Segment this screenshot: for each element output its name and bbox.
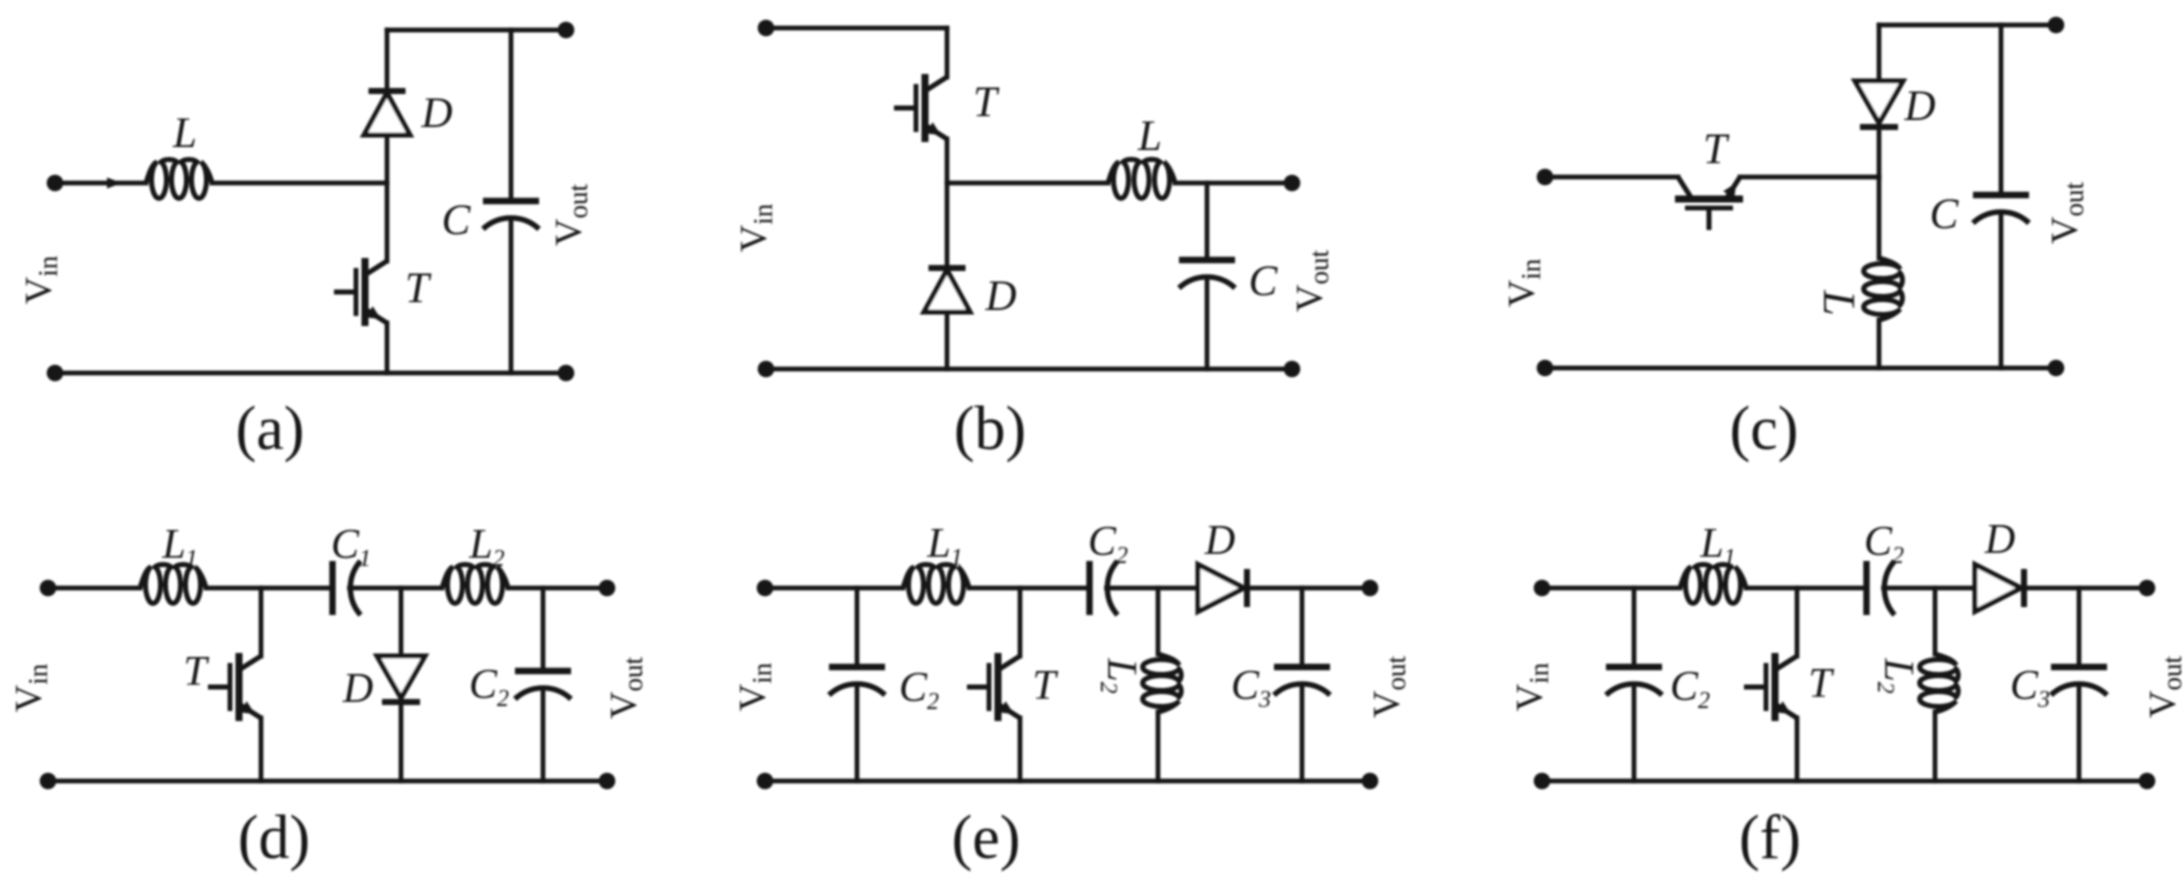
node f bottom right terminal xyxy=(2139,773,2156,790)
diode D xyxy=(364,91,410,135)
capacitor C2 d xyxy=(515,671,571,699)
inductor L1 xyxy=(140,564,206,603)
wire c L to bottom rail xyxy=(1877,320,1882,368)
capacitor C2 shunt f xyxy=(1606,667,1662,695)
capacitor C2 shunt e xyxy=(829,667,885,695)
wire a emitter to bottom rail xyxy=(385,323,390,373)
svg-text:C: C xyxy=(1249,258,1279,305)
node d bottom right terminal xyxy=(599,773,616,790)
transistor T xyxy=(894,74,947,142)
svg-text:C: C xyxy=(1930,191,1960,238)
node d input terminal xyxy=(40,580,57,597)
wire f L2 bottom xyxy=(1933,712,1938,781)
wire a cap bottom xyxy=(509,218,514,373)
wire b cap bottom xyxy=(1205,277,1210,369)
wire d diode to rail xyxy=(399,702,404,781)
svg-text:(c): (c) xyxy=(1730,395,1799,463)
wire b collector wire xyxy=(945,28,950,77)
diode D xyxy=(1855,81,1903,127)
wire e C3 bottom xyxy=(1300,684,1305,781)
transistor T xyxy=(334,258,387,326)
wire e L2 top xyxy=(1156,588,1161,654)
wire f L1 to C-series xyxy=(1746,586,1867,591)
node c bottom left terminal xyxy=(1537,360,1554,377)
node e input terminal xyxy=(757,580,774,597)
svg-text:(a): (a) xyxy=(236,395,305,463)
svg-text:D: D xyxy=(420,90,452,137)
wire e diode to output xyxy=(1247,586,1370,591)
diode D xyxy=(924,268,970,312)
svg-text:T: T xyxy=(405,265,432,312)
svg-text:T: T xyxy=(183,649,209,695)
node e bottom right terminal xyxy=(1362,773,1379,790)
wire a diode cathode to top rail xyxy=(385,30,390,91)
svg-text:T: T xyxy=(1032,663,1058,709)
wire f C3 bottom xyxy=(2077,684,2082,781)
svg-text:L: L xyxy=(172,110,197,157)
wire e L1 to C-series xyxy=(969,586,1090,591)
node e bottom left terminal xyxy=(757,773,774,790)
svg-text:D: D xyxy=(1204,518,1235,564)
capacitor C2 series f xyxy=(1867,561,1895,615)
node b output terminal xyxy=(1284,175,1301,192)
capacitor C xyxy=(1973,195,2029,223)
wire e L2 bottom xyxy=(1156,712,1161,781)
wire b node to L xyxy=(947,181,1108,186)
wire b bottom rail xyxy=(766,367,1292,372)
wire c input to T xyxy=(1545,175,1678,180)
wire f C-shunt top xyxy=(1632,588,1637,667)
svg-text:D: D xyxy=(1903,83,1935,130)
svg-text:L: L xyxy=(1137,113,1162,160)
wire f T collector xyxy=(1795,588,1800,656)
wire c bottom rail xyxy=(1545,366,2056,371)
inductor L2 f xyxy=(1920,654,1959,712)
transistor T d xyxy=(208,653,261,721)
wire d T collector xyxy=(259,588,264,656)
inductor L1 e xyxy=(903,564,969,603)
svg-text:(e): (e) xyxy=(952,804,1021,872)
wire d L2 to output xyxy=(508,586,607,591)
transistor T e xyxy=(967,653,1020,721)
svg-text:(f): (f) xyxy=(1739,804,1801,872)
wire b L to output xyxy=(1175,181,1292,186)
capacitor C xyxy=(1179,260,1235,288)
svg-text:T: T xyxy=(1703,126,1730,173)
wire f L2 top xyxy=(1933,588,1938,654)
wire b top wire xyxy=(766,26,947,31)
wire f bottom rail xyxy=(1542,779,2147,784)
inductor L2 e xyxy=(1143,654,1182,712)
svg-text:(d): (d) xyxy=(238,804,310,872)
wire c cap bottom xyxy=(1999,212,2004,368)
capacitor C3 f xyxy=(2051,667,2107,695)
node f output terminal xyxy=(2139,580,2156,597)
node a output + terminal xyxy=(558,22,575,39)
node a bottom left terminal xyxy=(47,365,64,382)
transistor T f xyxy=(1744,653,1797,721)
inductor L1 f xyxy=(1680,564,1746,603)
transistor T xyxy=(1675,177,1743,230)
wire e T emitter to rail xyxy=(1018,718,1023,781)
wire c cap top xyxy=(1999,25,2004,195)
diode D d xyxy=(377,656,425,702)
svg-text:L: L xyxy=(1814,289,1865,316)
node e output terminal xyxy=(1362,580,1379,597)
diode D e xyxy=(1198,565,1247,612)
wire c T to node xyxy=(1740,175,1879,180)
svg-text:D: D xyxy=(984,273,1016,320)
wire b emitter to node xyxy=(945,139,950,268)
wire e C-shunt bottom xyxy=(855,684,860,781)
svg-text:D: D xyxy=(342,666,373,712)
svg-text:C: C xyxy=(442,197,472,244)
wire d input to L1 xyxy=(48,586,140,591)
capacitor C1 xyxy=(333,561,361,615)
inductor L2 xyxy=(442,564,508,603)
node b input terminal xyxy=(758,20,775,37)
wire d L1 to C1 xyxy=(206,586,333,591)
wire f C-shunt bottom xyxy=(1632,684,1637,781)
capacitor C2 series e xyxy=(1090,561,1118,615)
capacitor C3 e xyxy=(1274,667,1330,695)
svg-text:(b): (b) xyxy=(954,395,1026,463)
wire e C3 top xyxy=(1300,588,1305,667)
wire f C-series to diode xyxy=(1884,586,1976,591)
wire f input to L1 xyxy=(1542,586,1680,591)
node b bottom right terminal xyxy=(1284,361,1301,378)
wire b diode to bottom rail xyxy=(945,312,950,369)
wire e bottom rail xyxy=(765,779,1370,784)
wire a cap top xyxy=(509,30,514,201)
wire c top rail xyxy=(1879,23,2056,28)
wire e T collector xyxy=(1018,588,1023,656)
svg-text:D: D xyxy=(1984,517,2015,563)
wire e C-series to diode xyxy=(1107,586,1199,591)
wire f T emitter to rail xyxy=(1795,718,1800,781)
inductor L xyxy=(146,159,212,198)
inductor L xyxy=(1108,159,1175,198)
node c output + terminal xyxy=(2048,17,2065,34)
node a bottom right terminal xyxy=(558,365,575,382)
wire b cap top xyxy=(1205,183,1210,260)
node c input terminal xyxy=(1537,169,1554,186)
wire a L to switch node xyxy=(212,181,387,186)
wire d C1 to L2 xyxy=(350,586,443,591)
node f bottom left terminal xyxy=(1534,773,1551,790)
wire f diode to output xyxy=(2024,586,2147,591)
inductor L xyxy=(1864,258,1903,320)
wire a top rail xyxy=(387,28,566,33)
wire e input to L1 xyxy=(765,586,903,591)
node d bottom left terminal xyxy=(40,773,57,790)
current arrow xyxy=(107,178,122,189)
svg-text:T: T xyxy=(973,79,1000,126)
svg-text:T: T xyxy=(1808,661,1834,707)
node d output terminal xyxy=(599,580,616,597)
wire a input to L xyxy=(55,181,146,186)
wire c node down to L xyxy=(1877,177,1882,258)
diode D f xyxy=(1975,565,2024,612)
node c bottom right terminal xyxy=(2048,360,2065,377)
node b bottom left terminal xyxy=(758,361,775,378)
wire c diode to top rail xyxy=(1877,25,1882,81)
wire d bottom rail xyxy=(48,779,607,784)
capacitor C xyxy=(483,201,539,229)
wire c node up to diode xyxy=(1877,127,1882,177)
node f input terminal xyxy=(1534,580,1551,597)
wire f C3 top xyxy=(2077,588,2082,667)
wire e C-shunt top xyxy=(855,588,860,667)
wire d C2 top xyxy=(541,588,546,671)
node a input terminal xyxy=(47,175,64,192)
wire a bottom rail xyxy=(55,371,566,376)
wire a switch node vertical xyxy=(385,133,390,261)
wire d diode anode xyxy=(399,588,404,656)
wire d C2 bottom xyxy=(541,688,546,781)
wire d T emitter to rail xyxy=(259,718,264,781)
